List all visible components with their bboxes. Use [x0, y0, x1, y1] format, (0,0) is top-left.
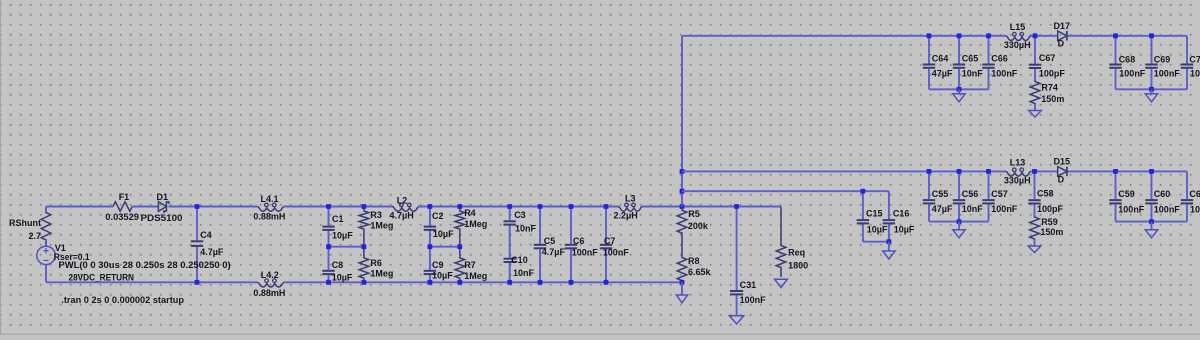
- inductor L15 330uH: [1006, 36, 1031, 41]
- wire top group2 bottom: [1116, 88, 1188, 90]
- svg-text:100pF: 100pF: [1039, 68, 1066, 78]
- svg-text:100nF: 100nF: [603, 248, 630, 258]
- svg-text:L4.1: L4.1: [261, 194, 279, 204]
- junction C69 top: [1149, 33, 1154, 38]
- wire top rail segment 1: [46, 206, 113, 208]
- svg-text:F1: F1: [119, 192, 130, 202]
- svg-text:100nF: 100nF: [1119, 69, 1146, 79]
- svg-text:PWL(0 0 30us 28 0.250s 28 0.25: PWL(0 0 30us 28 0.250s 28 0.250250 0): [58, 260, 230, 270]
- capacitor C60: [1151, 171, 1153, 199]
- wire R74 gnd stem: [1034, 104, 1036, 111]
- junction feed-C15 line: [680, 189, 685, 194]
- svg-text:10µF: 10µF: [433, 229, 454, 239]
- svg-text:C59: C59: [1118, 189, 1135, 199]
- junction C64 top: [927, 33, 932, 38]
- diode D1 PDS5100 (schottky): [158, 202, 166, 212]
- svg-text:D17: D17: [1054, 21, 1071, 31]
- svg-text:C2: C2: [432, 211, 444, 221]
- capacitor column x=571: [570, 207, 572, 244]
- svg-text:R3: R3: [370, 210, 382, 220]
- junction C68 top: [1113, 33, 1118, 38]
- junction C67 top: [1033, 33, 1038, 38]
- wire node682 to Req corner: [682, 206, 781, 208]
- inductor L4.2: [257, 282, 284, 287]
- capacitor C65: [958, 36, 960, 64]
- svg-text:1Meg: 1Meg: [464, 219, 487, 229]
- junction C56 top: [957, 169, 962, 174]
- svg-text:0.88mH: 0.88mH: [253, 288, 285, 298]
- wire L13 to D15: [1031, 170, 1058, 172]
- capacitor C3 10nF: [509, 207, 511, 221]
- svg-text:R7: R7: [464, 260, 476, 270]
- svg-text:C3: C3: [514, 210, 526, 220]
- svg-text:100nF: 100nF: [1190, 205, 1200, 215]
- resistor R5 200k: [677, 207, 687, 247]
- svg-text:1Meg: 1Meg: [370, 269, 393, 279]
- svg-text:C7: C7: [604, 236, 616, 246]
- svg-text:100pF: 100pF: [1037, 204, 1064, 214]
- svg-text:10nF: 10nF: [962, 204, 984, 214]
- ground below C31: [729, 316, 743, 324]
- svg-text:C9: C9: [432, 260, 444, 270]
- capacitor C10 10nF: [509, 243, 511, 258]
- svg-text:C56: C56: [962, 189, 979, 199]
- capacitor C66: [988, 36, 990, 64]
- svg-text:330µH: 330µH: [1004, 176, 1031, 186]
- svg-text:C5: C5: [544, 236, 556, 246]
- capacitor C70 on corner column: [1186, 36, 1188, 64]
- capacitor C64: [928, 36, 930, 64]
- junction C16 bottom: [887, 239, 892, 244]
- svg-text:D1: D1: [157, 192, 169, 202]
- svg-text:R8: R8: [688, 256, 700, 266]
- junction mid: [457, 244, 462, 249]
- svg-text:200k: 200k: [688, 221, 709, 231]
- svg-text:C6: C6: [573, 236, 585, 246]
- svg-text:C68: C68: [1119, 54, 1136, 64]
- wire top section rail left: [682, 35, 1006, 37]
- svg-text:100nF: 100nF: [1118, 205, 1145, 215]
- svg-text:R5: R5: [688, 209, 700, 219]
- junction bottom: [569, 280, 574, 285]
- junction R5 top: [680, 204, 685, 209]
- capacitor column x=606: [605, 207, 607, 244]
- ground below C56: [953, 230, 965, 238]
- svg-text:10nF: 10nF: [513, 268, 535, 278]
- svg-text:0.88mH: 0.88mH: [253, 212, 285, 222]
- svg-text:10nF: 10nF: [962, 68, 984, 78]
- svg-text:C65: C65: [962, 53, 979, 63]
- svg-text:C61: C61: [1189, 189, 1200, 199]
- svg-text:0.03529: 0.03529: [105, 212, 139, 222]
- capacitor C16 10uF: [888, 191, 890, 219]
- junction mid: [362, 244, 367, 249]
- junction C60 top: [1149, 169, 1154, 174]
- svg-text:47µF: 47µF: [932, 204, 953, 214]
- resistor RShunt 2.7: [41, 212, 51, 247]
- svg-text:1Meg: 1Meg: [370, 220, 393, 230]
- junction top: [538, 204, 543, 209]
- junction bottom rail: [428, 280, 433, 285]
- wire group2 gnd stem: [1151, 89, 1153, 94]
- svg-text:10µF: 10µF: [332, 230, 353, 240]
- svg-text:C69: C69: [1154, 54, 1171, 64]
- svg-text:L4.2: L4.2: [261, 270, 279, 280]
- svg-text:10µF: 10µF: [332, 273, 353, 283]
- wire D1 to L4.1: [169, 206, 258, 208]
- svg-text:C60: C60: [1154, 189, 1171, 199]
- junction C4 top: [195, 204, 200, 209]
- wire D15 to corner: [1068, 170, 1187, 172]
- capacitor C56: [958, 171, 960, 199]
- junction C10 bottom: [507, 280, 512, 285]
- ground below C65: [953, 94, 965, 102]
- wire mid node C2-R4: [430, 246, 460, 248]
- svg-text:100nF: 100nF: [1190, 69, 1200, 79]
- capacitor C8 10uF: [328, 247, 330, 270]
- junction C57 top: [986, 169, 991, 174]
- capacitor C61 on corner column: [1186, 171, 1188, 199]
- ground below C69: [1145, 94, 1157, 102]
- ground below R59: [1028, 246, 1041, 253]
- wire C16 gnd stem: [888, 242, 890, 251]
- fuse F1: [113, 202, 132, 211]
- svg-text:100nF: 100nF: [1154, 205, 1181, 215]
- junction bottom group1: [957, 219, 962, 224]
- diode D17: [1058, 31, 1067, 41]
- inductor L3: [618, 207, 643, 212]
- svg-text:.tran 0 2s 0 0.000002 startup: .tran 0 2s 0 0.000002 startup: [61, 295, 184, 305]
- svg-text:L2: L2: [397, 195, 408, 205]
- junction R8 bottom: [680, 280, 685, 285]
- ground below Req: [775, 279, 788, 287]
- wire V1 to bottom rail: [45, 265, 47, 283]
- svg-text:C4: C4: [200, 230, 212, 240]
- svg-text:C8: C8: [332, 260, 344, 270]
- wire L2 to L3: [418, 206, 619, 208]
- svg-text:C55: C55: [932, 189, 949, 199]
- ground below C16: [883, 251, 895, 259]
- svg-text:47µF: 47µF: [932, 68, 953, 78]
- V1 plus sign: [43, 248, 48, 253]
- junction top rail: [457, 204, 462, 209]
- diode D15: [1058, 167, 1067, 177]
- junction feed-mid rail: [680, 169, 685, 174]
- svg-text:C67: C67: [1039, 53, 1056, 63]
- svg-text:D15: D15: [1054, 156, 1071, 166]
- resistor R4 1Meg: [455, 207, 465, 247]
- capacitor C2 10uF: [429, 207, 431, 226]
- svg-text:330µH: 330µH: [1004, 40, 1031, 50]
- svg-text:100nF: 100nF: [740, 295, 767, 305]
- capacitor C68: [1115, 36, 1117, 64]
- svg-text:C64: C64: [932, 53, 949, 63]
- wire D17 to corner: [1068, 35, 1187, 37]
- svg-text:C16: C16: [893, 209, 910, 219]
- svg-text:4.7µF: 4.7µF: [542, 247, 566, 257]
- capacitor C31 100nF: [736, 207, 738, 291]
- svg-text:C70: C70: [1189, 54, 1200, 64]
- svg-text:1Meg: 1Meg: [464, 271, 487, 281]
- wire mid-right rail left: [682, 170, 1006, 172]
- wire bottom rail right: [284, 281, 682, 283]
- capacitor C58 100pF: [1034, 171, 1036, 199]
- wire L15 to D17: [1031, 35, 1058, 37]
- inductor L2: [392, 207, 419, 212]
- capacitor C69: [1151, 36, 1153, 64]
- junction top rail: [362, 204, 367, 209]
- wire left column top: [45, 207, 47, 212]
- junction mid: [326, 244, 331, 249]
- svg-text:C31: C31: [740, 280, 757, 290]
- wire F1 to D1: [132, 206, 158, 208]
- capacitor C4 4.7uF column: [196, 207, 198, 241]
- svg-text:C15: C15: [866, 209, 883, 219]
- capacitor column x=540: [539, 207, 541, 244]
- ground below R8: [676, 295, 687, 303]
- svg-text:R74: R74: [1041, 83, 1058, 93]
- ground below R74: [1029, 111, 1042, 118]
- svg-text:R59: R59: [1041, 217, 1058, 227]
- capacitor C1 10uF: [328, 207, 330, 226]
- svg-text:L15: L15: [1010, 22, 1026, 32]
- inductor L13 330uH: [1006, 171, 1031, 176]
- resistor R7 1Meg: [455, 247, 465, 283]
- svg-text:4.7µF: 4.7µF: [200, 247, 224, 257]
- junction bottom: [604, 280, 609, 285]
- resistor R74 150m: [1030, 81, 1040, 105]
- capacitor C57: [988, 171, 990, 199]
- capacitor C67 100pF: [1034, 36, 1036, 64]
- wire vertical feed x=682: [681, 36, 683, 207]
- junction group2 bottom: [1149, 87, 1154, 92]
- svg-text:4.7µH: 4.7µH: [390, 210, 414, 220]
- svg-text:1800: 1800: [788, 260, 808, 270]
- junction top: [569, 204, 574, 209]
- svg-text:10µF: 10µF: [432, 271, 453, 281]
- svg-text:10nF: 10nF: [515, 223, 537, 233]
- capacitor C55: [928, 171, 930, 199]
- svg-text:100nF: 100nF: [991, 68, 1018, 78]
- wire C15-C16 bottom: [863, 241, 889, 243]
- junction top rail: [428, 204, 433, 209]
- resistor R6 1Meg: [359, 247, 369, 283]
- svg-text:Req: Req: [788, 247, 805, 257]
- junction bottom rail: [362, 280, 367, 285]
- inductor L4.1: [257, 207, 284, 212]
- capacitor C15 10uF: [862, 191, 864, 219]
- svg-text:RShunt: RShunt: [9, 218, 41, 228]
- junction bottom rail: [457, 280, 462, 285]
- svg-text:C1: C1: [332, 214, 344, 224]
- svg-text:100nF: 100nF: [991, 204, 1018, 214]
- voltage source V1 circle: [37, 246, 55, 264]
- svg-text:D: D: [1058, 39, 1065, 49]
- capacitor C59: [1115, 171, 1117, 199]
- junction C31 top: [734, 204, 739, 209]
- svg-text:L3: L3: [625, 194, 636, 204]
- junction bottom rail: [326, 280, 331, 285]
- junction C15 top: [861, 189, 866, 194]
- junction C58 top: [1032, 169, 1037, 174]
- wire bottom group2 bottom wire: [1116, 221, 1188, 223]
- svg-text:2.7: 2.7: [28, 231, 41, 241]
- svg-text:R4: R4: [464, 208, 476, 218]
- junction C4 bottom: [195, 280, 200, 285]
- svg-text:L13: L13: [1010, 158, 1026, 168]
- wire top group1 bottom: [929, 88, 989, 90]
- wire RShunt to V1: [45, 240, 47, 246]
- junction top: [604, 204, 609, 209]
- wire bottom group1 bottom wire: [929, 221, 989, 223]
- junction bottom: [538, 280, 543, 285]
- svg-text:28VDC_RETURN: 28VDC_RETURN: [69, 273, 135, 283]
- svg-text:150m: 150m: [1041, 94, 1064, 104]
- svg-text:C57: C57: [991, 189, 1008, 199]
- resistor R3 1Meg: [359, 207, 369, 247]
- resistor Req 1800: [776, 207, 786, 278]
- svg-text:100nF: 100nF: [572, 248, 599, 258]
- junction C3 top: [507, 204, 512, 209]
- junction bottom group2: [1149, 219, 1154, 224]
- wire mid node C1-R3: [329, 246, 364, 248]
- svg-text:PDS5100: PDS5100: [141, 213, 183, 223]
- svg-text:6.65k: 6.65k: [688, 267, 712, 277]
- wire R8 to ground: [681, 282, 683, 295]
- wire L4.1 to L2: [284, 206, 393, 208]
- junction C59 top: [1113, 169, 1118, 174]
- junction C65 top: [957, 33, 962, 38]
- junction top rail: [326, 204, 331, 209]
- svg-text:C58: C58: [1037, 189, 1054, 199]
- svg-text:2.2µH: 2.2µH: [614, 211, 638, 221]
- svg-text:R6: R6: [370, 258, 382, 268]
- resistor R59 150m: [1030, 216, 1040, 240]
- wire C56 gnd stem: [958, 222, 960, 230]
- ground below C60: [1145, 230, 1157, 238]
- junction C55 top: [927, 169, 932, 174]
- wire L3 to node at x=682: [642, 206, 682, 208]
- junction mid: [428, 244, 433, 249]
- wire C60 gnd stem: [1151, 222, 1153, 230]
- wire group1 gnd stem: [958, 89, 960, 94]
- wire C15 line: [682, 190, 889, 192]
- wire R59 gnd stem: [1034, 240, 1036, 247]
- capacitor C9 10uF: [429, 247, 431, 270]
- svg-text:10µF: 10µF: [867, 225, 888, 235]
- svg-text:150m: 150m: [1040, 227, 1063, 237]
- junction group1 bottom: [957, 87, 962, 92]
- V1 minus sign: [43, 259, 48, 261]
- svg-text:D: D: [1058, 174, 1065, 184]
- wire bottom rail left: [46, 281, 257, 283]
- svg-text:C66: C66: [991, 53, 1008, 63]
- junction C66 top: [986, 33, 991, 38]
- svg-text:100nF: 100nF: [1154, 69, 1181, 79]
- svg-text:C10: C10: [511, 255, 528, 265]
- resistor R8 6.65k: [677, 247, 687, 283]
- svg-text:10µF: 10µF: [894, 225, 915, 235]
